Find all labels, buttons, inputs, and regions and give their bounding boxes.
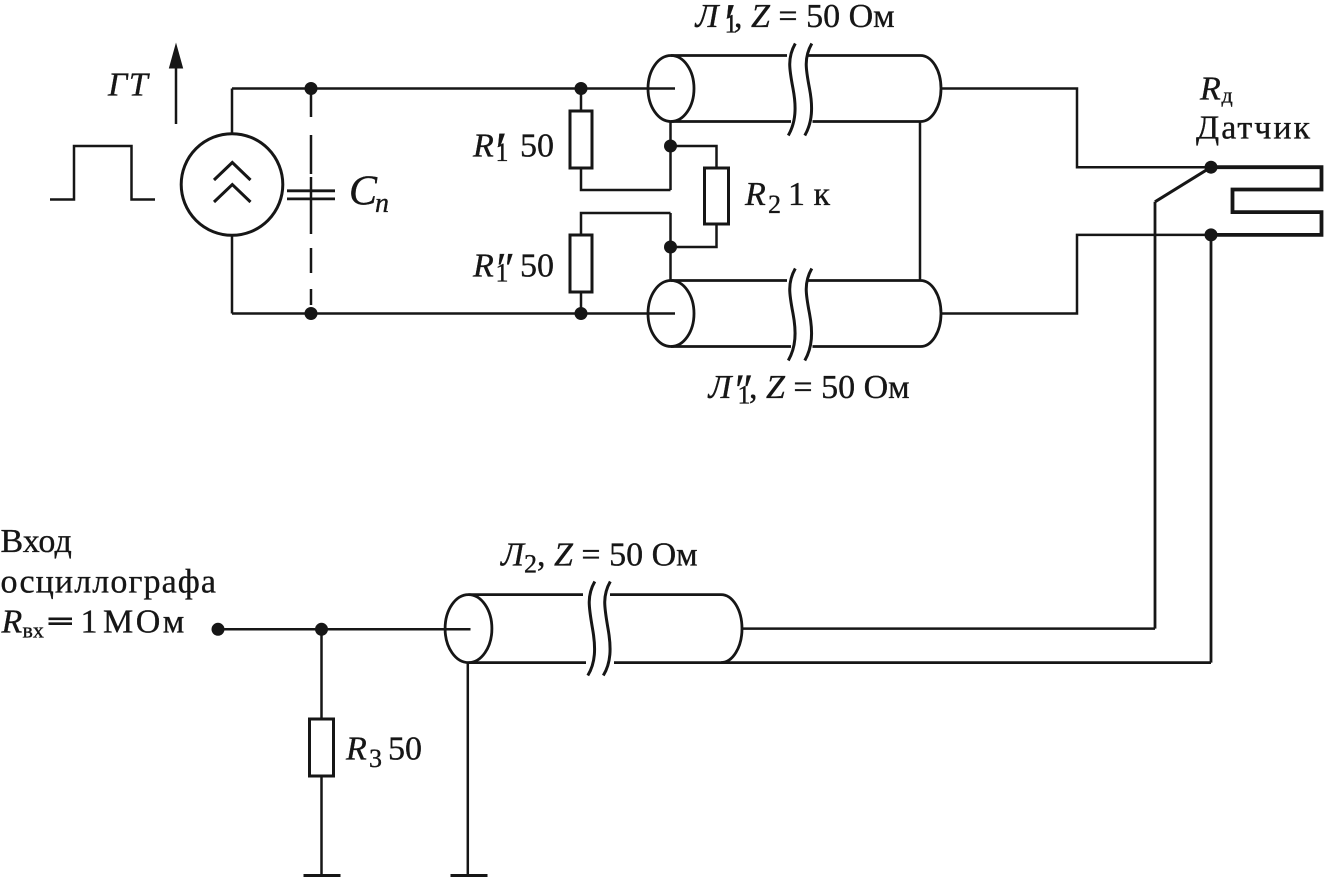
svg-text:Вход: Вход xyxy=(1,523,72,560)
svg-text:R: R xyxy=(345,731,367,768)
label L1' Z=50 Ом xyxy=(695,0,895,53)
svg-text:Л: Л xyxy=(500,537,526,574)
resistor R1' xyxy=(570,111,592,168)
svg-text:ГТ: ГТ xyxy=(107,67,150,104)
wire R1' bottom lead to shield xyxy=(581,168,671,190)
label Датчик xyxy=(1196,110,1312,147)
ground L2 xyxy=(451,874,488,877)
svg-text:осциллографа: осциллографа xyxy=(1,564,218,601)
svg-text:R: R xyxy=(472,248,494,285)
svg-text:1: 1 xyxy=(496,138,509,167)
sensor Rd meander element xyxy=(1211,167,1322,235)
node top rail / R1' xyxy=(575,82,588,95)
label Cn xyxy=(349,169,389,220)
diagonal tap wire xyxy=(1155,167,1211,202)
svg-text:вх: вх xyxy=(23,618,44,643)
svg-text:, Z = 50 Ом: , Z = 50 Ом xyxy=(537,537,698,574)
node R3 junction xyxy=(315,623,328,636)
svg-text:50: 50 xyxy=(388,731,422,768)
capacitor Cn plates xyxy=(287,191,335,199)
wire L1' centre to sensor top xyxy=(941,89,1211,168)
wire L2 centre conductor xyxy=(742,627,1155,630)
ground R3 xyxy=(304,874,341,877)
label R2 1 к xyxy=(744,176,831,219)
label ГТ xyxy=(107,67,150,104)
input terminal node xyxy=(212,623,225,636)
label L1'' Z=50 Ом xyxy=(708,366,910,415)
break marks L1' xyxy=(788,44,812,136)
svg-text:1: 1 xyxy=(81,604,98,641)
capacitor Cn dashed connection xyxy=(310,93,313,305)
node top rail / Cn xyxy=(305,82,318,95)
svg-text:R: R xyxy=(1199,71,1221,108)
pulse waveform symbol xyxy=(50,146,155,200)
node R2 top xyxy=(664,140,677,153)
pulse generator G1 circle xyxy=(181,134,283,236)
node sensor bottom xyxy=(1205,228,1218,241)
label R1'' 50 xyxy=(472,244,554,293)
wire oscilloscope input xyxy=(218,628,471,631)
svg-text:1: 1 xyxy=(496,259,509,288)
wire R2 top lead xyxy=(671,146,717,168)
wire R3 top lead xyxy=(320,629,323,719)
svg-text:, Z = 50 Ом: , Z = 50 Ом xyxy=(734,0,895,35)
wire R1'' bottom lead xyxy=(580,292,583,314)
node R2 bottom xyxy=(664,241,677,254)
chevrons inside generator xyxy=(214,163,251,203)
wire L1' shield down xyxy=(669,122,672,191)
svg-text:д: д xyxy=(1222,83,1233,108)
wire sensor bottom down to L2 shield xyxy=(1210,235,1213,663)
break marks L1'' xyxy=(788,269,812,361)
svg-text:3: 3 xyxy=(369,744,382,773)
svg-text:C: C xyxy=(349,169,378,215)
resistor R1'' xyxy=(570,235,592,292)
arrow (generator output direction) xyxy=(169,43,183,125)
wire L1'' centre to sensor bottom xyxy=(941,235,1211,314)
resistor R2 xyxy=(705,168,729,224)
svg-text:50: 50 xyxy=(520,248,554,285)
wire L1'' shield up xyxy=(669,213,672,281)
wire generator bottom lead xyxy=(231,235,234,314)
wire R1' top lead xyxy=(580,89,583,112)
svg-text:Датчик: Датчик xyxy=(1196,110,1312,147)
wire R3 bottom lead xyxy=(320,776,323,874)
transmission line L1' xyxy=(648,56,941,122)
label L2 Z=50 Ом xyxy=(500,537,698,579)
svg-text:Л: Л xyxy=(695,0,721,35)
transmission line L1'' xyxy=(648,281,941,347)
wire R1'' top lead from shield xyxy=(581,213,671,235)
label R3 50 xyxy=(345,731,422,774)
label R1' 50 xyxy=(472,121,554,181)
wire L2 shield down xyxy=(467,663,470,874)
label Вход осциллографа Rвх = 1 МОм xyxy=(1,523,218,643)
svg-text:, Z = 50 Ом: , Z = 50 Ом xyxy=(749,369,910,406)
wire top rail xyxy=(232,87,675,90)
svg-text:n: n xyxy=(375,188,389,219)
label Rд xyxy=(1199,71,1233,108)
wire R2 bottom lead xyxy=(671,224,717,247)
resistor R3 xyxy=(310,719,334,776)
svg-text:R: R xyxy=(472,128,494,165)
wire tap down to L2 centre xyxy=(1154,202,1157,629)
transmission line L2 xyxy=(445,595,1211,663)
svg-text:Л: Л xyxy=(708,369,734,406)
svg-text:R: R xyxy=(1,604,23,641)
break marks L2 xyxy=(588,582,611,676)
node bottom rail / R1'' xyxy=(575,307,588,320)
wire shield right connector xyxy=(919,122,922,281)
svg-text:R: R xyxy=(744,176,766,213)
svg-text:2: 2 xyxy=(768,190,781,219)
svg-text:50: 50 xyxy=(520,128,554,165)
node sensor top xyxy=(1205,161,1218,174)
wire generator top lead xyxy=(231,89,234,135)
label Rвх equals sign xyxy=(49,619,73,624)
node bottom rail / Cn xyxy=(305,307,318,320)
svg-text:1 к: 1 к xyxy=(788,176,831,213)
svg-text:МОм: МОм xyxy=(103,604,187,641)
svg-text:2: 2 xyxy=(524,550,537,579)
wire bottom rail xyxy=(232,312,675,315)
